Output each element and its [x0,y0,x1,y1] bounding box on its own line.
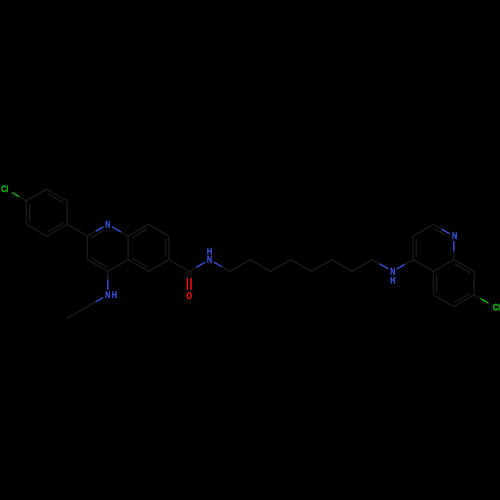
benzo ring of left quinoline [128,224,169,271]
amide C-N bond [189,262,205,271]
ethyl group N-CH2-CH3 [67,298,103,319]
amide nitrogen label N with H [207,246,212,265]
svg-text:N: N [105,218,110,229]
bond ring C6-carbonyl [169,260,189,272]
bond C7-Cl (right) [474,295,488,303]
svg-text:H: H [112,289,117,300]
ring nitrogen label N1 (left quinoline) [105,218,110,229]
svg-text:Cl: Cl [493,302,500,313]
benzene ring (4-chlorophenyl, left) [26,189,67,236]
svg-text:N: N [105,289,110,300]
ring nitrogen label N1 (right quinoline) [452,230,457,241]
svg-text:H: H [390,275,395,286]
bond N-C4 (right quinoline) [397,260,413,269]
chlorine label Cl (left) [1,183,8,194]
amine label NH (left) [105,289,117,300]
pyridine ring of right quinoline [413,224,454,271]
svg-text:O: O [186,290,192,301]
chlorine label Cl (right) [493,302,500,313]
svg-text:Cl: Cl [1,183,8,194]
secondary amine label N-H (right) [390,265,395,285]
svg-text:H: H [207,246,212,257]
biaryl bond phenyl-quinoline C2 [67,224,87,236]
bond C4-N (ethylamino, left) [107,271,109,289]
bond C-Cl (left) [13,193,27,201]
benzo ring of right quinoline [433,260,474,307]
pyridine ring of left quinoline [87,227,128,271]
carbonyl double bond C=O [187,271,191,289]
svg-text:N: N [452,230,457,241]
octamethylene chain [214,260,388,272]
oxygen label O [186,290,192,301]
